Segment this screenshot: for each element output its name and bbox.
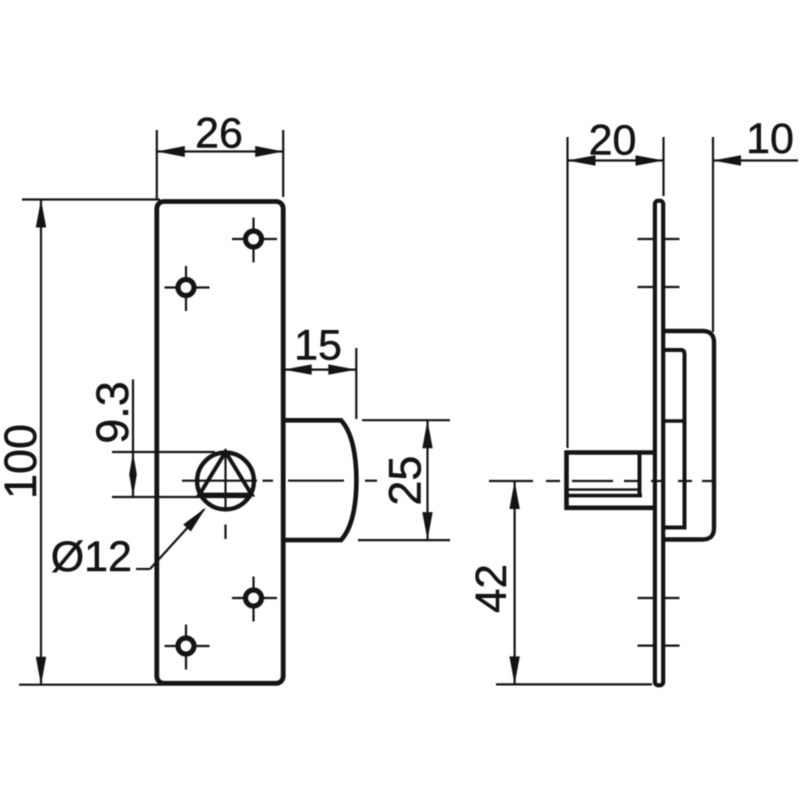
dim 42 dimension line: [513, 481, 515, 684]
dim 42 extension line bottom: [496, 683, 652, 685]
dim 42 arrow bottom: [509, 656, 519, 684]
dim 100 arrow top: [36, 200, 46, 228]
leader Ø12 tail: [136, 568, 150, 570]
dim 20 arrow left: [568, 155, 596, 165]
faceplate side view: [655, 201, 663, 686]
horizontal centerline through hole and bolt: [182, 480, 257, 482]
dim 100 dimension line: [40, 200, 42, 685]
screw hole upper-left ring: [178, 280, 194, 296]
dim 26 dimension line: [157, 150, 283, 152]
dim 25 arrow top: [422, 420, 432, 448]
dim 15 arrow right: [328, 364, 356, 374]
dim 20 arrow right: [636, 155, 664, 165]
svg-text:20: 20: [589, 117, 637, 165]
dim 15 arrow left: [284, 364, 312, 374]
svg-text:Ø12: Ø12: [51, 533, 132, 581]
dim 100 arrow bottom: [36, 657, 46, 685]
bolt side view outline: [567, 453, 655, 508]
dim 26 extension line right: [282, 130, 284, 197]
leader Ø12 line: [150, 510, 204, 570]
dim 9.3 arrows (diamond): [129, 452, 137, 497]
dim 25 arrow bottom: [422, 512, 432, 540]
svg-text:100: 100: [0, 424, 46, 499]
dim 100 extension line bottom: [19, 684, 162, 686]
dim 26 arrow right: [255, 146, 283, 157]
dim 20 extension line left: [566, 137, 568, 448]
bolt side inner vertical: [638, 453, 642, 496]
cylinder cam triangle: [199, 452, 251, 495]
svg-text:15: 15: [294, 322, 342, 370]
screw hole bottom-left ring: [178, 638, 194, 654]
lock body side view: [664, 331, 714, 540]
dim 26 extension line left: [156, 130, 158, 199]
svg-text:25: 25: [380, 456, 431, 506]
body inner rect: [664, 350, 685, 528]
svg-text:42: 42: [467, 564, 516, 613]
side centerline: [489, 480, 533, 482]
dim 25 dimension line: [426, 420, 428, 540]
hole position tick 4: [638, 644, 680, 646]
screw hole upper-left crosshair: [165, 286, 210, 288]
dim 100 extension line top: [22, 198, 160, 200]
dim 42 arrow top: [509, 481, 519, 509]
bolt side inner line 1: [569, 488, 640, 490]
dim 10 extension line: [712, 137, 714, 332]
hole position tick 2: [638, 286, 680, 288]
svg-text:9.3: 9.3: [87, 381, 138, 444]
hole position tick 3: [638, 597, 680, 599]
bolt front view outline: [284, 420, 356, 540]
vertical centerline of cylinder hole: [224, 449, 226, 508]
screw hole bottom-left crosshair: [165, 645, 210, 647]
bolt side inner line 2: [567, 494, 643, 498]
dim 9.3 dimension line: [132, 379, 134, 497]
svg-text:10: 10: [746, 115, 794, 163]
dim 15 extension line: [355, 348, 357, 419]
dim 9.3 extension line bottom: [112, 496, 252, 498]
dim 15 dimension line: [284, 369, 356, 371]
leader Ø12 arrowhead: [183, 508, 206, 532]
dim 25 extension line top: [362, 419, 450, 421]
svg-text:26: 26: [195, 110, 243, 158]
screw hole top-right crosshair: [232, 238, 277, 240]
body inner step line: [665, 419, 685, 423]
hole position tick 1: [638, 238, 680, 240]
dim 25 extension line bottom: [358, 539, 450, 541]
dim 10 dimension line: [713, 159, 798, 161]
dim 10 arrow: [713, 155, 741, 165]
dim 9.3 extension line top: [112, 451, 215, 453]
screw hole top-right ring: [246, 231, 262, 247]
dim 20 extension line right (over plate): [662, 137, 664, 196]
screw hole lower-right ring: [246, 590, 262, 606]
dim 20 dimension line: [568, 159, 664, 161]
cylinder hole circle: [197, 453, 254, 510]
screw hole lower-right crosshair: [232, 597, 277, 599]
dim 26 arrow left: [157, 146, 185, 157]
front plate outline: [157, 202, 283, 684]
